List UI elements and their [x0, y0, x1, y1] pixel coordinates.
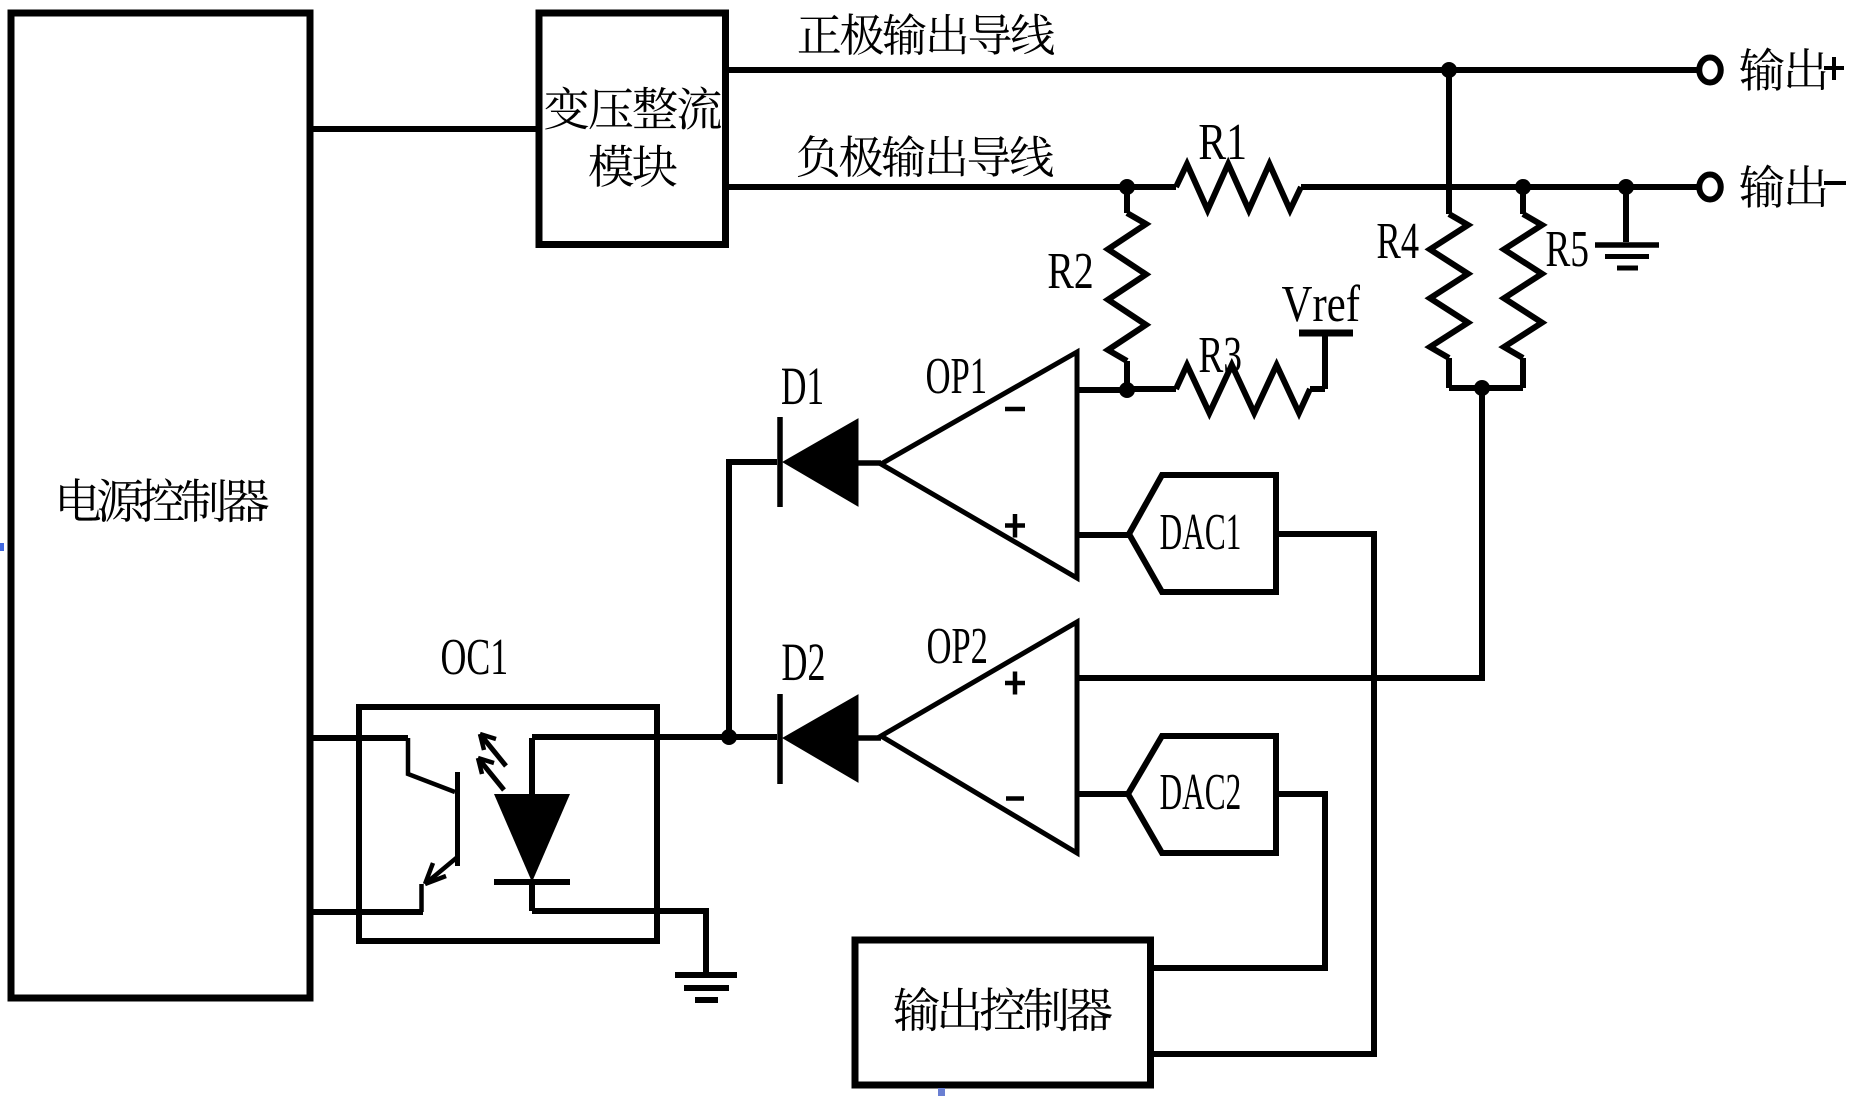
terminal 输出- [1699, 175, 1721, 200]
ground symbol right [1623, 187, 1629, 242]
OP2 plus input wire [1077, 675, 1482, 681]
label shuchukongzhiqi [894, 987, 1112, 1031]
OP2 minus input wire [1077, 791, 1130, 797]
OP1 plus symbol [1005, 523, 1025, 528]
resistor label R1 [1200, 125, 1245, 159]
label shuchu+ [1740, 47, 1826, 90]
wire R4 branch from positive wire [1446, 70, 1452, 214]
light arrows [480, 734, 506, 766]
bottom bar joining R4 R5 [1449, 385, 1523, 391]
node R5 top [1515, 179, 1531, 195]
terminal 输出+ [1699, 58, 1721, 83]
wire controller to OC1 collector [310, 735, 408, 741]
node R4/R5 bottom [1474, 380, 1490, 396]
label dianyuankongzhiqi [60, 478, 268, 522]
LED anode wire [529, 738, 535, 794]
wire D1 cathode left and down to node [729, 462, 777, 737]
DAC1 [1129, 475, 1276, 592]
OP1 minus input wire [1077, 387, 1127, 393]
OP2 plus symbol [1005, 681, 1025, 686]
label shuchu- [1740, 164, 1826, 207]
node on positive wire [1441, 62, 1457, 78]
LED cathode wire to ground [532, 911, 706, 973]
node R2 bottom / OP1 minus input [1119, 382, 1135, 398]
wire OC1 to D2 [532, 734, 777, 740]
transformer rectifier module box 变压整流模块 [539, 13, 726, 245]
wire controller to module [310, 126, 542, 132]
wire controller to OC1 emitter [310, 909, 423, 915]
node negative wire / R2 [1119, 179, 1135, 195]
LED triangle [494, 794, 570, 882]
wire positive output 正极输出导线 [725, 67, 1698, 73]
DAC2 output wire to output controller [1150, 794, 1325, 968]
diode D1 [777, 417, 783, 507]
OP1 plus input wire [1077, 532, 1131, 538]
diode D2 [777, 694, 783, 784]
wire node down to OP2 plus input [1077, 388, 1482, 678]
ground symbol bottom [675, 972, 737, 978]
plus sign [1824, 66, 1844, 70]
op-amp OP2 [881, 622, 1077, 853]
op-amp OP1 [881, 352, 1077, 578]
DAC1 output wire to output controller [1150, 534, 1374, 1054]
power controller box 电源控制器 [11, 13, 310, 998]
stray blue mark bottom [938, 1088, 945, 1096]
minus sign [1824, 181, 1846, 185]
phototransistor collector [408, 738, 455, 792]
phototransistor emitter with arrow [425, 857, 458, 884]
label bianyazhengliu [545, 87, 721, 130]
resistor R4 [1430, 214, 1468, 358]
OP2 minus symbol [1006, 796, 1024, 801]
LED cathode bar [494, 879, 570, 885]
label fuji [798, 135, 1053, 177]
output controller box 输出控制器 [855, 940, 1151, 1085]
node D2 / OC1 output [721, 729, 737, 745]
phototransistor base bar [455, 772, 460, 866]
optocoupler OC1 box [359, 707, 657, 941]
wire negative output 负极输出导线 + resistor R1 [725, 184, 1176, 190]
resistor R2 [1124, 187, 1130, 213]
DAC2 [1128, 736, 1276, 853]
resistor R3 [1127, 386, 1176, 392]
Vref terminal [1322, 333, 1328, 389]
label mokuai [589, 145, 676, 187]
OP1 minus symbol [1005, 407, 1025, 412]
stray blue mark left [0, 543, 4, 551]
label zhengji [799, 13, 1054, 55]
resistor R5 [1520, 187, 1526, 214]
node ground top right [1618, 179, 1634, 195]
